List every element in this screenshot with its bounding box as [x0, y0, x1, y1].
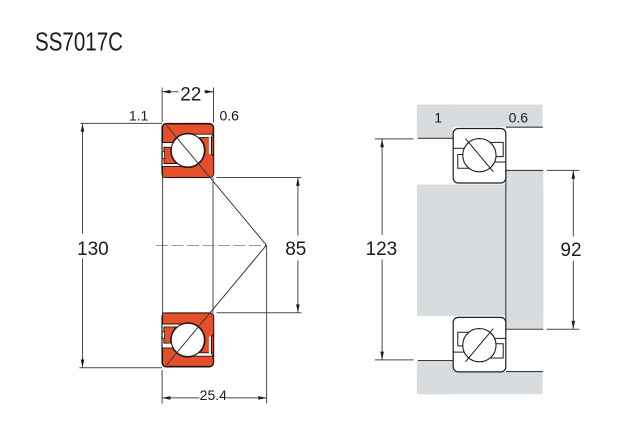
svg-text:85: 85	[285, 239, 306, 260]
shaft body	[417, 185, 543, 316]
housing shoulder line top-left	[418, 137, 453, 139]
arrow 92 down	[572, 321, 576, 329]
dim 130 line lower	[82, 259, 84, 368]
bearing right face line	[212, 177, 214, 313]
svg-text:130: 130	[77, 239, 109, 260]
shaft shoulder right	[506, 171, 544, 328]
bearing centerline (dashed)	[156, 244, 267, 246]
svg-text:0.6: 0.6	[509, 109, 529, 125]
arrow 92 up	[572, 171, 576, 179]
dim 25.4 line	[162, 397, 267, 399]
dim 92 extension top	[547, 169, 580, 171]
svg-text:1.1: 1.1	[129, 108, 149, 124]
shaft shoulder face line	[505, 170, 507, 329]
dim 85 extension top	[217, 177, 302, 179]
arrow 85 down	[296, 304, 300, 312]
dim 25.4 left extension	[161, 370, 163, 404]
arrow 130 up	[81, 124, 85, 132]
housing top band	[417, 105, 543, 127]
dim 1.1 reference line	[81, 122, 163, 124]
svg-text:22: 22	[180, 84, 201, 105]
dim 123 extension top	[375, 138, 414, 140]
housing bore line right of bearing	[506, 126, 543, 128]
arrow 130 down	[81, 360, 85, 368]
top cross-section	[162, 124, 267, 246]
dim text 22 halo	[179, 86, 205, 100]
apex drop line	[266, 245, 268, 403]
dim text 25.4 halo	[200, 389, 228, 401]
arrow 22 right	[205, 90, 213, 94]
svg-text:SS7017C: SS7017C	[35, 29, 123, 57]
housing shoulder line bottom-left	[418, 360, 453, 362]
dim 92 extension bottom	[547, 328, 580, 330]
svg-text:25.4: 25.4	[200, 387, 227, 403]
dim 85 extension bottom	[217, 312, 302, 314]
dim 92 line upper	[572, 170, 574, 236]
dim 92 line lower	[572, 261, 574, 330]
svg-text:92: 92	[560, 240, 581, 261]
arrow 85 up	[296, 178, 300, 186]
housing bottom-left block	[417, 361, 453, 394]
svg-text:123: 123	[366, 239, 398, 260]
arrow 22 left	[162, 90, 170, 94]
dim 22 line	[162, 91, 213, 93]
housing top-left block	[417, 105, 453, 138]
bottom cross-section (mirrored)	[162, 245, 267, 367]
svg-text:0.6: 0.6	[219, 107, 239, 123]
arrow 25.4 right	[258, 396, 266, 400]
dim 123 line lower	[381, 260, 383, 360]
right drawing bottom cross-section (mirrored)	[453, 317, 506, 372]
right drawing top cross-section	[453, 129, 506, 184]
dim 85 line upper	[297, 178, 299, 236]
dim 130 line upper	[82, 123, 84, 233]
arrow 123 up	[380, 139, 384, 147]
dim 123 extension bottom	[375, 359, 414, 361]
housing bore line right of bearing bottom	[506, 371, 543, 373]
shaft shoulder top surface	[506, 169, 544, 171]
dim 123 line upper	[381, 139, 383, 235]
bearing left face line	[162, 177, 164, 313]
arrow 25.4 left	[162, 396, 170, 400]
svg-text:1: 1	[434, 109, 442, 125]
arrow 123 down	[380, 352, 384, 360]
dim 130 bottom reference line	[79, 367, 162, 369]
shaft shoulder bottom surface	[506, 328, 544, 330]
dim 22 extension lines	[161, 88, 163, 123]
dim 85 line lower	[297, 261, 299, 313]
housing bottom band	[417, 372, 543, 394]
